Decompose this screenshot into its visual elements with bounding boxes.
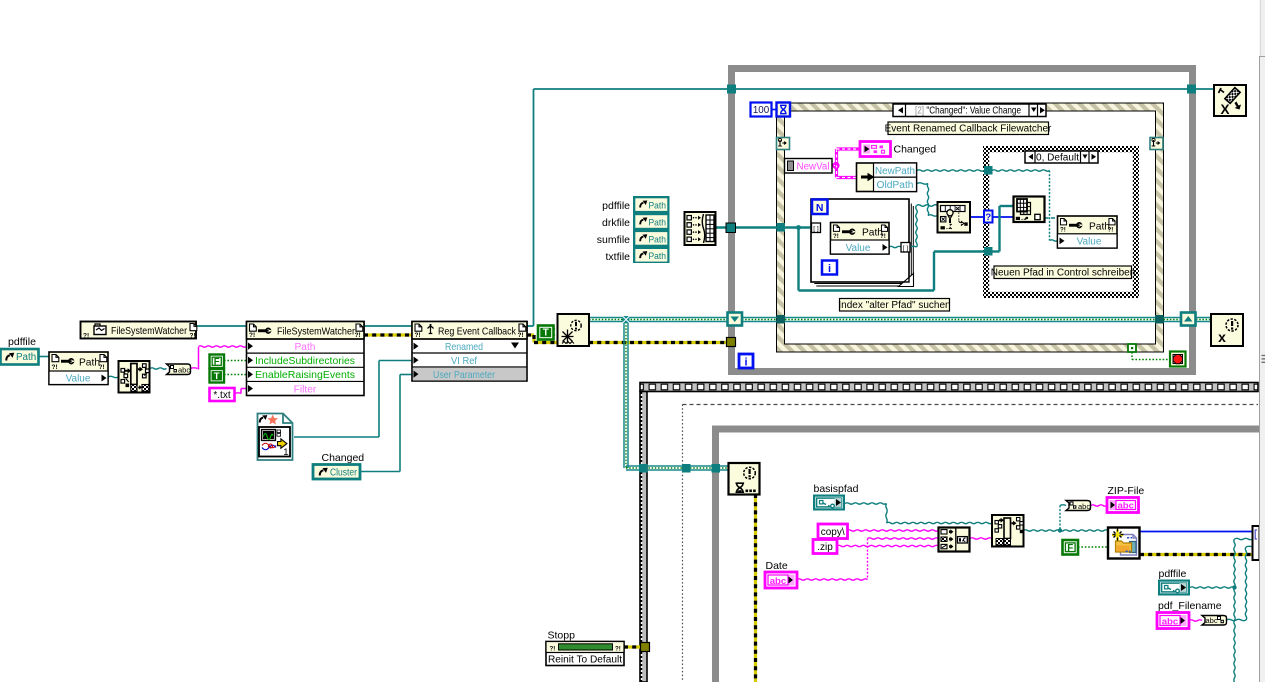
for loop background [811,199,909,282]
basispfad path control [813,495,845,511]
svg-text:Reinit To Default: Reinit To Default [548,655,622,666]
basispfad wire to build path [845,503,887,504]
dynamic event terminal right [1150,138,1163,150]
[] output tunnel [901,243,910,253]
svg-text:x: x [1218,329,1226,345]
svg-text:.zip: .zip [817,542,833,553]
shift register left (down arrow) [728,313,743,326]
svg-text:pdffile: pdffile [8,337,36,348]
concatenate strings node [939,528,970,552]
NewVal event data terminal [785,159,833,174]
svg-text:?!: ?! [52,364,58,371]
merge errors icon [558,314,590,346]
svg-text:pdffile: pdffile [1159,568,1187,580]
pdf_Filename string control [1157,613,1189,629]
svg-text:100: 100 [753,105,770,116]
NewPath wire inside case down to Value [992,170,1050,171]
wire *.txt to Filter [235,392,241,395]
svg-text:Renamed: Renamed [445,342,483,353]
wire FSW propnode error to callback [364,333,412,336]
pink cluster wire NewVal to junction/local/unbundle [832,164,837,167]
svg-text:txtfile: txtfile [605,251,630,263]
Changed Cluster control [313,465,360,480]
N count terminal [812,200,828,215]
blue zip refnum out [1140,531,1253,533]
junction on reg wire [623,316,630,323]
svg-text:Value: Value [66,374,91,385]
reg refnum branch down to inner loop [623,322,625,468]
event timeout hourglass terminal [777,103,791,117]
wire pdffile control to property node [38,356,49,358]
Stopp error tunnel on sequence [641,643,650,652]
svg-text:NewVal: NewVal [797,161,830,172]
branch up to path-to-string tag [1059,506,1061,531]
refnum wire across loop y89 tunnels [727,85,736,94]
blue index wire search to case selector [970,216,984,218]
svg-text:?!: ?! [415,332,421,339]
.zip string constant [813,540,837,554]
stop button [1170,352,1186,367]
while loop (top-right, callback handler) [732,69,1193,372]
property node Path (write new path) [1058,216,1118,248]
T constant [210,369,225,383]
svg-text:?!: ?! [518,332,524,339]
svg-text:Index "alter Pfad" suchen: Index "alter Pfad" suchen [838,300,950,311]
strip path icon [119,361,150,393]
path to string tag (zip name) [1066,501,1091,511]
flat sequence structure (film strip) [640,383,1258,682]
event reg refnum wire to shift register [589,317,728,319]
svg-text:Path: Path [649,251,667,262]
svg-text:Path: Path [79,358,100,369]
Reg Event Callback node [412,322,527,382]
svg-text:Event Renamed Callback Filewat: Event Renamed Callback Filewatcher [885,124,1052,135]
wire VI ref to VI Ref input [294,436,379,438]
error tunnel on left loop border [727,338,736,347]
error wire to while loop tunnel [589,341,727,344]
svg-text:Path: Path [295,342,316,353]
svg-text:1: 1 [283,447,288,458]
tunnel array into loop [726,223,736,233]
*.txt string constant [210,388,235,401]
copy string constant [818,524,848,539]
wire FSW propnode to Reg Event Callback (refnum) [364,325,412,327]
svg-text:Path: Path [1089,222,1110,233]
svg-text:VI Ref: VI Ref [451,356,477,367]
svg-text:Date: Date [766,560,788,572]
dynamic event terminal left [777,138,790,150]
new zip file VI icon [1108,528,1140,559]
reg refnum tunnels on event border [777,315,786,324]
NewPath wire to case tunnel [917,170,984,171]
svg-text:FileSystemWatcher: FileSystemWatcher [277,327,356,338]
svg-text:Value: Value [846,243,871,254]
svg-text:*.txt: *.txt [213,390,230,401]
svg-text:IncludeSubdirectories: IncludeSubdirectories [255,356,355,367]
svg-text:Path: Path [16,352,36,363]
Changed local variable [860,142,891,157]
svg-text:abc: abc [1117,500,1134,511]
svg-text:Reg Event Callback: Reg Event Callback [438,327,517,338]
zip const wire [837,545,938,546]
wire FSW constructor to FSW property node [196,325,247,327]
pdffile/drkfile/sumfile/txtfile Path controls [633,196,670,263]
case tunnel array [984,247,993,256]
path array wire from build-array into loop/event [715,226,777,228]
array wire from lower tunnel to index array [992,250,1000,252]
svg-text:?!: ?! [615,646,621,653]
path to string tag [167,364,191,375]
label Index alter Pfad suchen [838,299,950,312]
F constant [210,355,225,369]
wait on notification icon [729,463,760,495]
svg-text:Path: Path [649,217,667,228]
svg-text:?!: ?! [833,233,839,240]
array out of for loop to search in1 [910,245,917,248]
index array refnum out to Path property [1045,217,1058,219]
Stopp Reinit To Default invoke node [546,642,624,666]
svg-text:Path: Path [649,234,667,245]
svg-text:?!: ?! [190,333,196,340]
boolean mini tunnel on event bottom [1128,344,1136,352]
svg-text:F: F [1067,543,1073,554]
i iteration terminal (for loop) [822,261,837,276]
unbundle by name node [857,163,917,192]
svg-text:Changed: Changed [894,144,937,156]
svg-text:copy\: copy\ [821,527,845,538]
svg-text:Cluster: Cluster [330,468,358,479]
blue wire into index array [991,216,1014,218]
FileSystemWatcher constructor node [81,322,197,340]
svg-text:Path: Path [862,228,883,239]
search 1D array icon [938,202,971,233]
svg-text:?!: ?! [1060,227,1066,234]
i terminal (big while loop) [739,354,753,369]
svg-text:sumfile: sumfile [597,234,630,246]
svg-text:?: ? [985,212,991,223]
svg-text:pdf_Filename: pdf_Filename [1158,600,1222,612]
reg refnum into wait icon (tunnels) [639,464,648,473]
svg-text:Neuen Pfad in Control schreibe: Neuen Pfad in Control schreiben [991,268,1136,279]
event case description label [885,122,1052,135]
svg-text:?!: ?! [83,333,89,340]
[] auto-index input tunnel [812,223,821,233]
wire Value to strip-path icon [108,376,119,377]
right-edge cut node [1253,526,1260,560]
svg-text:[2] "Changed": Value Change: [2] "Changed": Value Change [915,106,1021,117]
zip name string to ZIP-File indicator [1091,505,1107,506]
build array node [685,212,716,245]
pdffile Path control [1,349,39,365]
svg-text:Changed: Changed [322,452,365,464]
pdf_Filename wire [1189,620,1202,621]
svg-text:EnableRaisingEvents: EnableRaisingEvents [255,370,355,381]
svg-text:T: T [214,371,220,382]
dashed structure border [683,405,1259,682]
case selector ? terminal [984,211,993,223]
svg-text:User Parameter: User Parameter [433,370,496,381]
index array icon [1014,197,1045,223]
svg-text:pdffile: pdffile [602,200,630,212]
wire callback refnum out up to close-ref (long teal) [527,325,534,327]
wire T const to EnableRaisingEvents [224,374,247,376]
svg-text:i: i [744,357,747,369]
svg-text:T: T [543,328,549,339]
VI reference constant (callback VI) [258,414,293,461]
Stopp error wire to sequence tunnel [624,645,642,648]
while loop (bottom-right, zip worker) [712,426,1259,682]
property node Path (in for loop) [831,223,890,255]
svg-text:abc: abc [1162,616,1179,627]
string to path tag [1202,616,1227,626]
case selector label [1025,151,1098,163]
svg-text:NewPath: NewPath [875,166,915,177]
OldPath wire to search icon [917,183,928,184]
svg-text:OldPath: OldPath [877,180,914,191]
green tunnel wire to stop button [1131,352,1133,360]
array wire branch down to case lower tunnel [797,228,799,291]
wire path-to-string to FSW Path property (magenta) [191,367,198,370]
svg-text:basispfad: basispfad [814,483,859,495]
close event reg icon (x with !) [1211,314,1243,346]
F const to new-zip [1078,546,1108,548]
concatenated string to build path [970,538,992,539]
T constant (callback enable) [538,326,558,340]
wire Changed cluster to User Parameter [360,471,400,473]
svg-text:i: i [828,263,831,275]
svg-text:X: X [1220,102,1229,117]
reg refnum to close-event icon [1196,317,1211,319]
case tunnel NewPath [984,166,993,175]
timeout constant 100 [751,103,772,117]
F constant (overwrite) [1063,540,1079,555]
zip path wire to new-zip icon [1024,530,1108,531]
svg-text:0, Default: 0, Default [1036,152,1079,163]
wire callback error out to merge-errors icon [527,333,534,336]
label Neuen Pfad in Control schreiben [991,266,1136,279]
property node Path (pdffile) [49,352,108,385]
svg-text:abc: abc [178,366,190,375]
FileSystemWatcher property node [247,322,365,396]
svg-text:?!: ?! [550,646,556,653]
svg-text:Path: Path [649,201,667,212]
right scrollbar area [1260,0,1265,682]
case structure background [983,146,1139,298]
close reference icon (X with class cube) [1214,85,1246,117]
svg-text:Filter: Filter [294,384,317,395]
reg refnum across event bottom [742,317,777,319]
svg-text:?!: ?! [355,332,361,339]
svg-text:N: N [816,202,824,214]
svg-text:ZIP-File: ZIP-File [1108,485,1145,497]
Date string control [765,572,797,588]
wire strip icon to path-to-string [150,368,166,369]
error out of new-zip [1140,553,1253,556]
svg-text:Value: Value [1077,237,1102,248]
wire F const to IncludeSubdirectories [224,360,247,362]
copy const wire [847,530,939,531]
svg-text:abc: abc [1206,616,1218,625]
event case selector label [893,104,1046,117]
svg-text:abc: abc [1078,502,1090,511]
svg-text:[ ]: [ ] [903,245,909,252]
svg-text:[ ]: [ ] [813,226,819,233]
Date wire [797,579,868,580]
svg-text:drkfile: drkfile [602,217,630,229]
for loop (search paths) frame [811,199,909,282]
svg-text:F: F [214,356,220,367]
timeout 100 wire [772,109,777,111]
shift register right (up arrow) [1181,313,1196,326]
svg-text:FileSystemWatcher: FileSystemWatcher [111,326,188,337]
svg-text:abc: abc [770,576,787,587]
ZIP-File string indicator [1107,498,1139,513]
for-loop Value output to [] tunnel [889,246,901,247]
tunnel array into event [777,223,786,232]
event structure border [777,103,1164,352]
svg-text:Stopp: Stopp [548,630,576,642]
error wire down from wait icon [754,494,757,682]
build path icon [992,515,1024,547]
pdffile wire up to right node and down [1190,587,1235,588]
pdffile path control (bottom) [1158,580,1190,596]
svg-text:?!: ?! [249,332,255,339]
